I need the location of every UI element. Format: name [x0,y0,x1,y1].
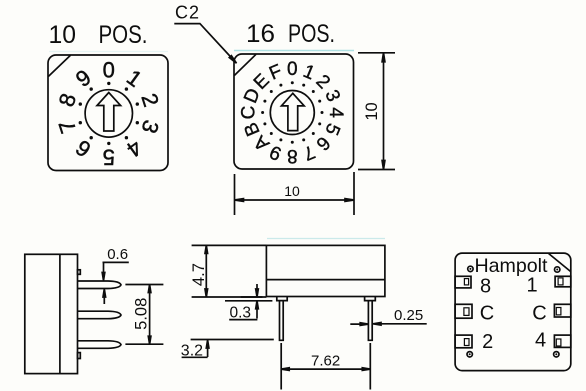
switch S1 corner notch [48,55,70,76]
bottom view body [455,253,571,371]
svg-text:5: 5 [103,144,115,169]
pin block L1 [455,276,471,288]
svg-text:1: 1 [526,274,537,296]
bottom view corner notch [549,254,571,272]
svg-text:POS.: POS. [288,20,335,48]
dimension 5.08: extension lines [125,285,163,345]
side view pin 3 [78,341,122,349]
svg-text:10: 10 [284,183,300,199]
svg-text:0: 0 [287,59,298,80]
svg-text:10: 10 [49,21,77,49]
svg-text:4: 4 [535,330,546,352]
dimension 0.3: extension lines [225,297,272,301]
front view divider [266,279,385,281]
label 16 POS. [246,20,335,48]
dimension 5.08: dim line [149,285,151,345]
dimension 10 vertical: extension lines [358,53,395,170]
switch S2 dots [261,81,323,143]
svg-text:10: 10 [363,102,381,120]
svg-text:0.25: 0.25 [394,307,423,324]
front view pin left [280,301,284,341]
dimension 10 horizontal: dim line [235,199,355,201]
switch S2 knob circle [270,91,314,135]
svg-text:C: C [239,106,260,120]
switch S1 arrow [97,93,121,132]
dimension 10 vertical: dim line [383,53,385,170]
pin block R3 [554,335,570,347]
leader C2 [174,24,234,61]
switch S1 dots [79,82,139,145]
svg-text:5.08: 5.08 [133,298,151,330]
dimension 4.7: extension lines [192,245,267,297]
label 10 POS. [49,21,148,49]
pin block L2 [455,304,472,318]
dimension 0.3: arrows [256,284,258,319]
svg-text:POS.: POS. [99,21,148,49]
side view body [25,254,78,373]
svg-text:C2: C2 [175,3,200,23]
front view body [266,245,385,296]
switch S1 digits 0-9 [54,57,164,169]
side view tab lower [78,353,81,359]
rivet BL [467,352,472,357]
svg-text:0.6: 0.6 [107,246,128,263]
switch S2 chars 0-F [239,59,346,166]
pin block R2 [554,304,570,317]
rivet TR [555,267,560,272]
front view pin base right [365,297,376,301]
svg-text:8: 8 [480,276,491,298]
scan tint streak over front view body [267,238,385,240]
dimension 3.2: pin tip line [191,339,274,341]
front view pin right [368,301,372,341]
svg-text:2: 2 [482,331,493,353]
dimension 7.62: dim line [281,368,370,370]
svg-text:4.7: 4.7 [190,263,208,286]
dimension 7.62: extension lines [281,343,370,390]
switch S2 body (16 POS top view) [234,54,354,169]
rivet BR [554,352,559,357]
switch S1 knob circle [85,90,132,137]
side view pin 1 [78,281,122,289]
svg-text:C: C [532,302,546,324]
svg-text:4: 4 [325,107,346,118]
dimension 4.7: dim line [205,245,207,297]
dimension 3.2: arrow [207,341,209,357]
pin block L3 [455,335,472,348]
switch S2 arrow [281,93,304,130]
rivet TL [468,266,473,271]
scan tint streak over 10POS square [49,51,168,53]
switch S1 body (10 POS top view) [48,55,168,171]
dimension 0.6: leader [103,262,129,304]
svg-text:16: 16 [246,20,275,48]
dimension 0.25: lines [350,323,426,325]
svg-text:C: C [480,302,494,324]
side view pin 2 [78,311,122,319]
front view pin base left [277,297,287,301]
pin block R1 [555,276,571,287]
side view divider [59,254,61,373]
side view tab upper [78,270,81,275]
dimension 10 horizontal: extension lines [235,172,355,215]
svg-text:8: 8 [287,145,298,166]
scan tint streak over 16POS square [234,50,354,52]
svg-text:7.62: 7.62 [311,352,340,369]
svg-text:0: 0 [103,57,115,82]
switch S2 corner notch [234,54,256,75]
